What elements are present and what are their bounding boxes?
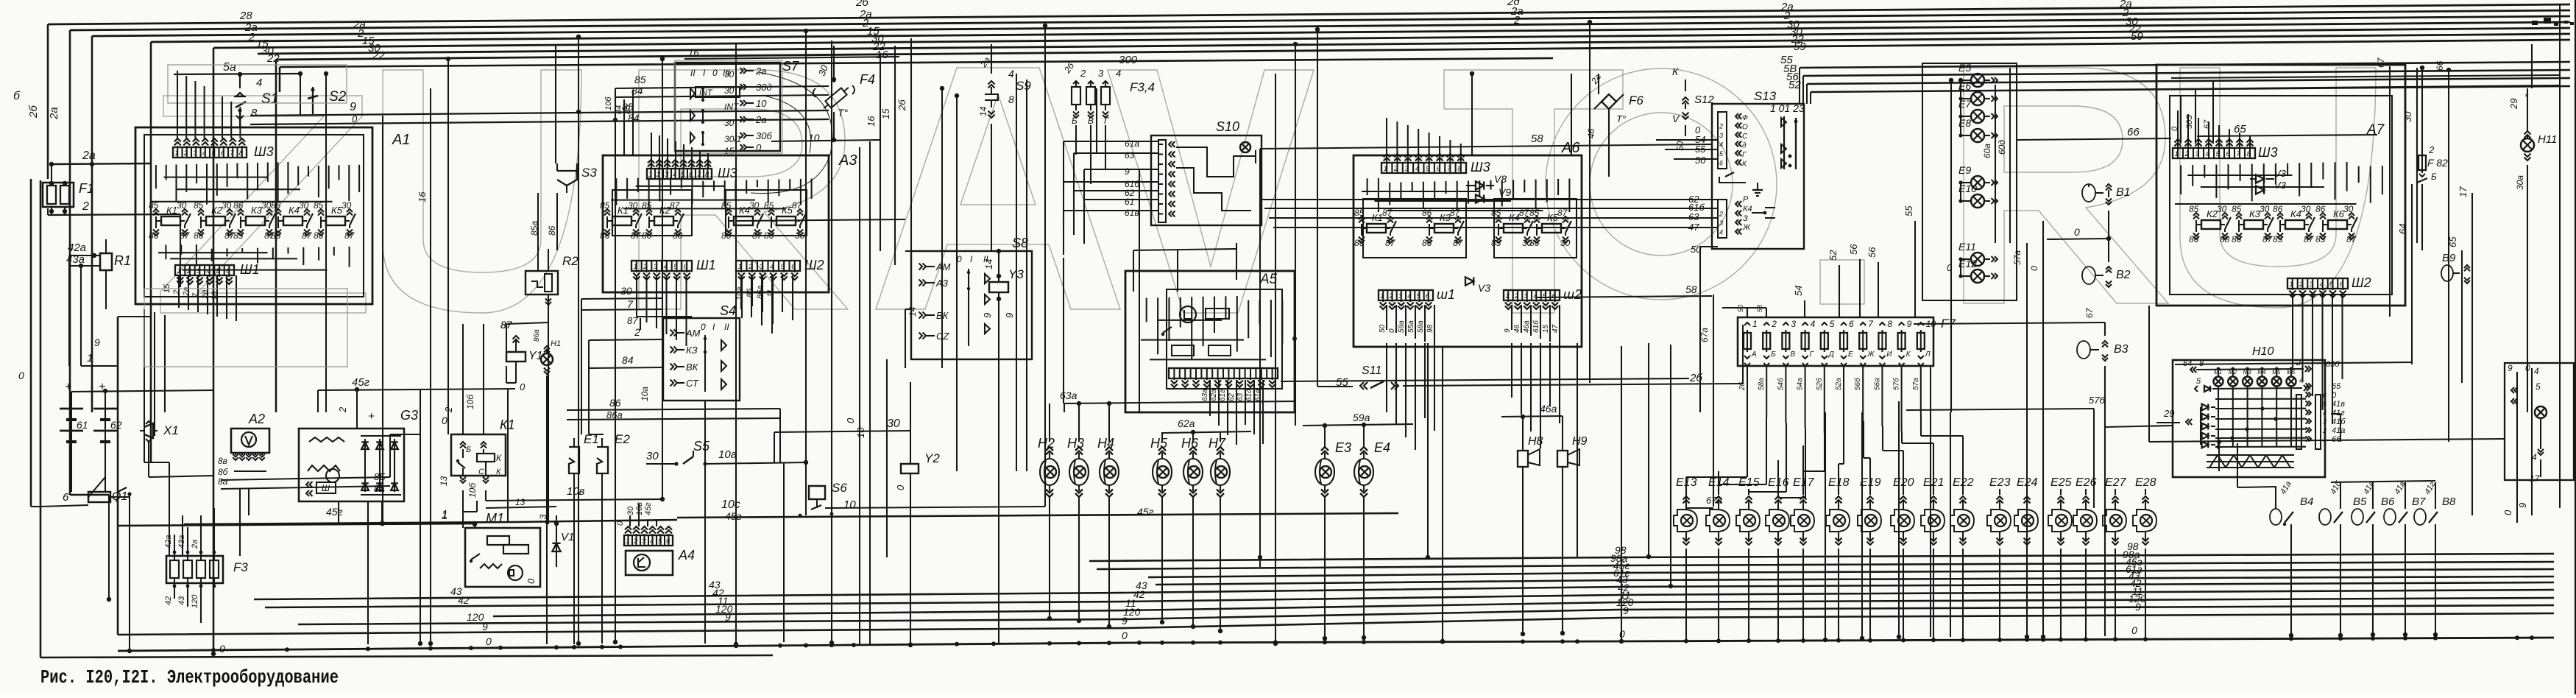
svg-text:4: 4 xyxy=(2320,281,2324,289)
wire G3 drops xyxy=(338,501,339,523)
svg-text:30: 30 xyxy=(2402,111,2413,122)
svg-text:5a: 5a xyxy=(223,61,236,74)
svg-text:85: 85 xyxy=(1491,238,1501,248)
svg-text:М1: М1 xyxy=(486,511,504,526)
svg-text:0: 0 xyxy=(957,254,962,264)
wire 16 angle xyxy=(684,57,899,59)
wire bus 42 bottom xyxy=(265,590,2554,607)
wire mesh A6 internals xyxy=(1367,178,1368,195)
svg-text:58: 58 xyxy=(1685,283,1697,295)
svg-text:E25: E25 xyxy=(2050,476,2072,489)
svg-text:11: 11 xyxy=(766,289,775,297)
svg-text:62: 62 xyxy=(110,419,122,431)
svg-text:0: 0 xyxy=(845,417,856,423)
svg-text:S11: S11 xyxy=(1362,364,1381,377)
svg-text:10б: 10б xyxy=(465,394,475,409)
wire battery to Q1 xyxy=(71,460,72,492)
svg-text:55a: 55a xyxy=(1407,320,1415,333)
battery G2 xyxy=(105,401,106,460)
wire 61a 63 lines xyxy=(1097,141,1151,142)
wire 14 line Y3 xyxy=(905,250,999,252)
wire 9 line xyxy=(250,110,829,116)
svg-text:R1: R1 xyxy=(114,253,131,268)
svg-text:87: 87 xyxy=(2304,234,2315,244)
svg-text:H5: H5 xyxy=(1150,436,1168,451)
svg-text:0: 0 xyxy=(486,635,492,647)
svg-text:2a: 2a xyxy=(755,66,766,77)
wire trunk x2623 xyxy=(1930,366,1931,637)
S13 switch lower xyxy=(1719,177,1746,183)
svg-text:F3: F3 xyxy=(233,560,248,574)
svg-text:1: 1 xyxy=(1505,292,1509,300)
wire bus 30 top xyxy=(258,34,2570,54)
svg-text:86: 86 xyxy=(2273,204,2283,214)
light group outline S1 S2 xyxy=(168,65,347,103)
svg-text:Ш3: Ш3 xyxy=(718,166,737,180)
fuse F1 xyxy=(43,183,74,207)
wire left vertical corner 380-300line xyxy=(279,67,281,92)
svg-text:5: 5 xyxy=(673,263,678,271)
svg-text:9: 9 xyxy=(725,611,731,623)
svg-text:55: 55 xyxy=(1903,205,1914,216)
generator rectifier diodes xyxy=(361,442,369,449)
svg-text:62a: 62a xyxy=(1210,389,1218,401)
svg-text:6: 6 xyxy=(2226,150,2231,158)
wire A1 bottom exits xyxy=(144,309,145,462)
wire H10 to B switches xyxy=(2218,442,2220,471)
lamp E22 xyxy=(1958,515,1970,526)
wire trunk x2530 down xyxy=(1861,412,1863,639)
svg-text:61б: 61б xyxy=(1532,320,1540,333)
svg-text:7: 7 xyxy=(230,149,234,158)
fuse F4 xyxy=(821,84,851,111)
svg-text:F1: F1 xyxy=(79,181,94,196)
svg-text:Ш1: Ш1 xyxy=(696,258,716,272)
svg-text:10б: 10б xyxy=(467,482,478,498)
svg-text:S5: S5 xyxy=(693,439,710,454)
wire trunk x1130 xyxy=(831,40,832,645)
svg-text:2: 2 xyxy=(634,326,640,338)
svg-text:29: 29 xyxy=(2163,408,2174,419)
svg-text:4: 4 xyxy=(1811,319,1816,329)
svg-text:13: 13 xyxy=(439,476,449,486)
lamp H4 xyxy=(1100,459,1119,485)
svg-text:0: 0 xyxy=(2074,226,2080,238)
svg-text:2: 2 xyxy=(337,406,348,413)
svg-text:6: 6 xyxy=(1437,165,1441,173)
svg-text:58a: 58a xyxy=(1758,378,1766,390)
wire verticals 16 15 2b xyxy=(880,53,881,251)
svg-text:15: 15 xyxy=(1542,324,1550,333)
wire trunk x1960 xyxy=(1442,346,1443,642)
svg-text:5: 5 xyxy=(2329,281,2334,289)
wire trunk x1760 xyxy=(1295,44,1296,426)
contact S3 xyxy=(557,171,577,186)
svg-text:0: 0 xyxy=(2525,363,2530,373)
svg-text:H9: H9 xyxy=(1572,435,1588,448)
relay K2 A1 xyxy=(206,216,225,225)
diode V1 xyxy=(556,515,557,567)
svg-text:1 01 23: 1 01 23 xyxy=(1770,102,1805,114)
connector Sh1 A1 xyxy=(175,265,234,275)
svg-text:2: 2 xyxy=(2299,281,2304,289)
svg-text:85: 85 xyxy=(2232,204,2242,214)
svg-text:F6: F6 xyxy=(1629,94,1643,107)
wire 87 Y1 xyxy=(506,322,548,324)
svg-text:59: 59 xyxy=(1794,40,1806,53)
svg-text:9: 9 xyxy=(1125,166,1130,177)
svg-text:S2: S2 xyxy=(329,89,347,105)
svg-text:S3: S3 xyxy=(581,166,597,180)
svg-text:45г: 45г xyxy=(326,506,343,518)
wire left frame vertical 6 xyxy=(30,179,32,507)
svg-text:54: 54 xyxy=(1793,286,1804,296)
relay K3 A1 xyxy=(246,216,265,225)
svg-text:Б: Б xyxy=(1072,116,1078,126)
wire below A3 sh2 drops xyxy=(740,275,742,309)
svg-text:30/1: 30/1 xyxy=(724,134,741,144)
svg-text:Б: Б xyxy=(466,445,471,454)
wire below A3 sh1 drops xyxy=(636,275,637,317)
svg-text:85: 85 xyxy=(233,230,244,241)
wire left vertical corner C xyxy=(91,36,93,412)
svg-text:6: 6 xyxy=(63,491,69,504)
wire A6 bottom exits right xyxy=(1511,305,1512,330)
lamp E27 xyxy=(2110,515,2122,526)
wire K1 tops xyxy=(462,412,464,434)
svg-text:30б: 30б xyxy=(756,130,772,141)
svg-text:A4: A4 xyxy=(678,548,695,563)
svg-text:H7: H7 xyxy=(1209,436,1226,451)
svg-text:3: 3 xyxy=(1398,292,1403,300)
svg-text:B4: B4 xyxy=(2300,496,2313,508)
svg-text:9: 9 xyxy=(2508,363,2513,373)
svg-text:45г: 45г xyxy=(1137,506,1154,518)
relay K3 A7 xyxy=(2244,220,2263,229)
svg-text:К6: К6 xyxy=(2333,208,2345,219)
lamp E17 xyxy=(1798,515,1810,526)
relay K4 A6 xyxy=(1504,224,1523,233)
svg-text:30: 30 xyxy=(620,285,632,297)
svg-text:8: 8 xyxy=(1887,319,1892,329)
svg-text:A5: A5 xyxy=(1259,272,1278,287)
svg-text:63: 63 xyxy=(1688,211,1699,222)
svg-text:66: 66 xyxy=(2127,126,2140,138)
wire 59a xyxy=(1303,424,1413,426)
svg-text:Д: Д xyxy=(1828,350,1834,359)
svg-text:3: 3 xyxy=(2323,418,2326,426)
lamp E8 xyxy=(1971,129,1984,142)
svg-text:10: 10 xyxy=(808,132,820,144)
svg-text:28: 28 xyxy=(239,10,252,22)
svg-text:+: + xyxy=(368,410,375,423)
block A5 xyxy=(1125,271,1295,412)
A5 regulator internals xyxy=(1180,306,1196,322)
wire 1 line xyxy=(118,523,475,526)
H10 bottom hatch xyxy=(2207,454,2294,456)
svg-text:46: 46 xyxy=(1586,128,1596,138)
wire bus 120 bottom xyxy=(298,605,2554,624)
svg-text:52: 52 xyxy=(1827,250,1839,261)
wire S4 87 drop xyxy=(640,318,641,330)
battery G1 xyxy=(71,401,72,460)
wire 30 7 S4 feeds xyxy=(581,298,663,299)
lamp H1 xyxy=(541,353,553,365)
switch S1 xyxy=(239,74,241,87)
svg-text:8: 8 xyxy=(1457,165,1462,173)
connector A5 bottom xyxy=(1169,368,1278,378)
wire 63a line xyxy=(1064,401,1295,403)
svg-text:В: В xyxy=(1088,116,1094,126)
svg-text:63a: 63a xyxy=(1060,389,1078,401)
svg-text:8: 8 xyxy=(239,149,244,158)
svg-text:1: 1 xyxy=(1380,292,1384,300)
starter M1 xyxy=(465,528,540,587)
wire bus 0 bottom xyxy=(118,638,2554,651)
svg-text:Ш3: Ш3 xyxy=(254,144,274,159)
svg-text:E28: E28 xyxy=(2135,476,2156,489)
relay K1 starter xyxy=(451,434,506,476)
svg-text:2д: 2д xyxy=(201,290,210,300)
svg-text:К2: К2 xyxy=(2207,208,2218,219)
svg-text:8a: 8a xyxy=(374,483,384,494)
lamp E24 xyxy=(2022,515,2034,526)
svg-text:46a: 46a xyxy=(1523,320,1531,333)
wire right lower horizontals xyxy=(2149,439,2505,442)
svg-text:10: 10 xyxy=(756,98,767,109)
wire trunk x2270 xyxy=(1670,345,1671,587)
svg-text:V1: V1 xyxy=(561,531,574,543)
relay K4 A3 xyxy=(734,216,753,225)
svg-text:87: 87 xyxy=(180,230,191,241)
svg-text:0: 0 xyxy=(18,370,24,381)
wire trunk x1280 xyxy=(941,88,943,368)
wire 45g gen xyxy=(318,389,515,390)
svg-text:0: 0 xyxy=(219,643,225,655)
svg-text:2: 2 xyxy=(1514,292,1519,300)
svg-text:4: 4 xyxy=(1719,229,1723,236)
svg-text:52: 52 xyxy=(1788,79,1801,91)
wire S9 S10 links xyxy=(991,44,992,74)
resistor R1 xyxy=(100,253,112,270)
svg-text:T°: T° xyxy=(838,107,849,119)
svg-text:4: 4 xyxy=(673,171,676,179)
wire bus 43 bottom xyxy=(254,582,2554,599)
svg-text:V3: V3 xyxy=(1478,282,1490,294)
svg-text:Y2: Y2 xyxy=(924,451,940,465)
svg-text:30: 30 xyxy=(724,69,735,80)
svg-text:Ш3: Ш3 xyxy=(2258,145,2278,160)
svg-text:61в: 61в xyxy=(1125,208,1139,218)
svg-text:9: 9 xyxy=(982,313,993,318)
far right indicator block xyxy=(2505,363,2574,480)
wire 66 67 verticals xyxy=(2448,70,2449,442)
lamp H3 xyxy=(1069,459,1089,485)
svg-text:41a: 41a xyxy=(2332,426,2345,435)
svg-text:86: 86 xyxy=(2189,234,2199,244)
svg-text:E11: E11 xyxy=(1958,241,1976,253)
svg-text:3: 3 xyxy=(2310,281,2314,289)
wire bus 300 xyxy=(280,58,1553,67)
lamp E6 xyxy=(1971,92,1984,105)
svg-text:О: О xyxy=(1742,124,1748,132)
svg-text:85: 85 xyxy=(1491,208,1501,218)
wire lamp tops xyxy=(1049,403,1050,442)
svg-text:9: 9 xyxy=(350,101,356,113)
svg-text:57a: 57a xyxy=(1912,378,1920,390)
svg-text:61д: 61д xyxy=(1245,389,1253,401)
relay K2 A3 xyxy=(654,216,673,225)
wire bus 58 right xyxy=(1803,70,2570,76)
wire S7 flourish arcs xyxy=(751,72,832,194)
svg-text:H4: H4 xyxy=(1097,436,1114,451)
svg-text:67: 67 xyxy=(2203,119,2212,129)
fuse block F3 left xyxy=(166,556,223,583)
svg-text:2a: 2a xyxy=(755,114,766,125)
svg-text:15: 15 xyxy=(880,108,891,119)
svg-text:E4: E4 xyxy=(1374,440,1390,455)
svg-text:Q1: Q1 xyxy=(112,490,127,503)
svg-text:42: 42 xyxy=(458,594,470,606)
svg-text:2: 2 xyxy=(748,263,753,271)
svg-text:II: II xyxy=(724,322,729,332)
svg-text:41в: 41в xyxy=(2332,400,2345,409)
svg-text:Ш2: Ш2 xyxy=(804,258,824,272)
svg-text:87: 87 xyxy=(1519,208,1530,218)
svg-text:К: К xyxy=(496,453,502,463)
lamp E13 xyxy=(1681,515,1693,526)
svg-text:10c: 10c xyxy=(721,498,740,511)
wire trunk x1790 xyxy=(1317,29,1318,387)
wire trunk x1733 xyxy=(1275,74,1276,644)
svg-text:300: 300 xyxy=(1119,54,1138,66)
lamp E26 xyxy=(2081,515,2092,526)
svg-text:10в: 10в xyxy=(567,485,585,498)
relay K5 A3 xyxy=(776,216,796,225)
svg-text:30: 30 xyxy=(2301,204,2311,214)
svg-text:2: 2 xyxy=(2184,150,2190,158)
svg-text:57a: 57a xyxy=(2012,250,2023,265)
svg-text:6: 6 xyxy=(666,537,670,546)
wire E lamp feeds upper xyxy=(1802,445,1804,490)
svg-text:К1: К1 xyxy=(618,205,629,216)
svg-text:3: 3 xyxy=(2195,150,2200,158)
svg-text:4: 4 xyxy=(2206,150,2209,158)
svg-text:10: 10 xyxy=(843,498,856,511)
connector Sh3 A1 xyxy=(173,147,247,158)
svg-text:14: 14 xyxy=(907,306,918,317)
svg-text:1: 1 xyxy=(87,352,93,364)
lamp E15 xyxy=(1744,515,1755,526)
svg-text:46: 46 xyxy=(1513,324,1521,333)
wire F7 to lamps connections xyxy=(1747,412,1748,477)
svg-text:8a: 8a xyxy=(218,476,228,487)
relay K1 A3 xyxy=(612,216,631,225)
svg-text:87: 87 xyxy=(2262,234,2274,244)
svg-text:3: 3 xyxy=(1524,292,1529,300)
svg-text:42: 42 xyxy=(164,596,173,605)
svg-text:0: 0 xyxy=(2502,510,2513,515)
svg-text:30: 30 xyxy=(646,450,659,462)
svg-text:Рис. I20,I2I. Электрооборудова: Рис. I20,I2I. Электрооборудование xyxy=(40,666,339,688)
svg-text:56: 56 xyxy=(1848,244,1859,255)
svg-text:4: 4 xyxy=(202,149,206,158)
svg-text:61a: 61a xyxy=(1125,138,1139,149)
svg-text:B8: B8 xyxy=(2442,496,2456,508)
svg-text:СZ: СZ xyxy=(936,331,949,342)
svg-text:87: 87 xyxy=(344,230,355,241)
svg-text:8б: 8б xyxy=(218,467,229,477)
wire S13 inputs xyxy=(1656,139,1718,141)
svg-text:85: 85 xyxy=(2315,234,2326,244)
wire 67a vertical xyxy=(1713,295,1714,507)
svg-text:67a: 67a xyxy=(1699,328,1710,342)
lamp H11 xyxy=(2521,138,2534,152)
svg-text:9: 9 xyxy=(2517,503,2528,508)
wire trunk x3440 top xyxy=(2531,44,2533,88)
svg-text:К2: К2 xyxy=(659,205,671,216)
lamp E7 xyxy=(1971,110,1984,123)
generator stator winding xyxy=(309,437,344,442)
svg-text:9: 9 xyxy=(1004,313,1015,318)
svg-text:КЗ: КЗ xyxy=(686,345,698,356)
lamp S10 indicator xyxy=(1240,142,1250,152)
svg-text:0: 0 xyxy=(526,578,537,584)
switch B5 xyxy=(2319,509,2331,525)
wire S10 feeds left xyxy=(1064,141,1158,142)
svg-text:2a: 2a xyxy=(82,149,96,162)
svg-text:6: 6 xyxy=(1719,160,1723,167)
svg-text:7: 7 xyxy=(1447,165,1451,173)
wire 86 86a lines xyxy=(567,409,780,410)
svg-text:7: 7 xyxy=(191,292,200,297)
svg-text:H11: H11 xyxy=(2538,133,2557,146)
wire right top horizontals xyxy=(2245,85,2560,88)
svg-text:61г: 61г xyxy=(1219,389,1227,401)
svg-text:0: 0 xyxy=(712,68,718,78)
svg-text:9: 9 xyxy=(94,336,100,348)
wire 13 line xyxy=(462,512,464,528)
svg-text:59: 59 xyxy=(2131,30,2143,43)
svg-text:К4: К4 xyxy=(739,205,750,216)
switch B7 xyxy=(2384,509,2396,525)
wire bus 61g bottom xyxy=(1156,577,2554,585)
svg-text:5: 5 xyxy=(1417,292,1421,300)
svg-text:2: 2 xyxy=(82,200,89,213)
svg-text:5: 5 xyxy=(1830,319,1835,329)
H10 lamps xyxy=(2214,377,2223,387)
wire trunk x2920 right xyxy=(2148,306,2150,442)
svg-text:S13: S13 xyxy=(1754,89,1777,103)
svg-text:85: 85 xyxy=(600,200,610,211)
wire trunk x1205 xyxy=(886,359,888,557)
svg-text:2: 2 xyxy=(183,149,188,158)
corner marks top right xyxy=(2532,21,2538,25)
svg-text:1: 1 xyxy=(1384,165,1387,173)
wire trunk x443 xyxy=(325,74,327,412)
svg-text:87: 87 xyxy=(2346,234,2357,244)
svg-text:9: 9 xyxy=(1907,319,1912,329)
switch S2 xyxy=(312,87,314,114)
connector Sh3 A6 xyxy=(1381,163,1466,173)
wire 45g long mid xyxy=(677,513,1398,518)
wire bus 98 bottom xyxy=(1089,554,2554,561)
wire bus 28 xyxy=(70,10,2570,30)
svg-text:30: 30 xyxy=(2260,204,2270,214)
svg-text:1: 1 xyxy=(2290,281,2293,289)
block A3 xyxy=(603,155,829,292)
svg-text:87: 87 xyxy=(627,315,638,326)
